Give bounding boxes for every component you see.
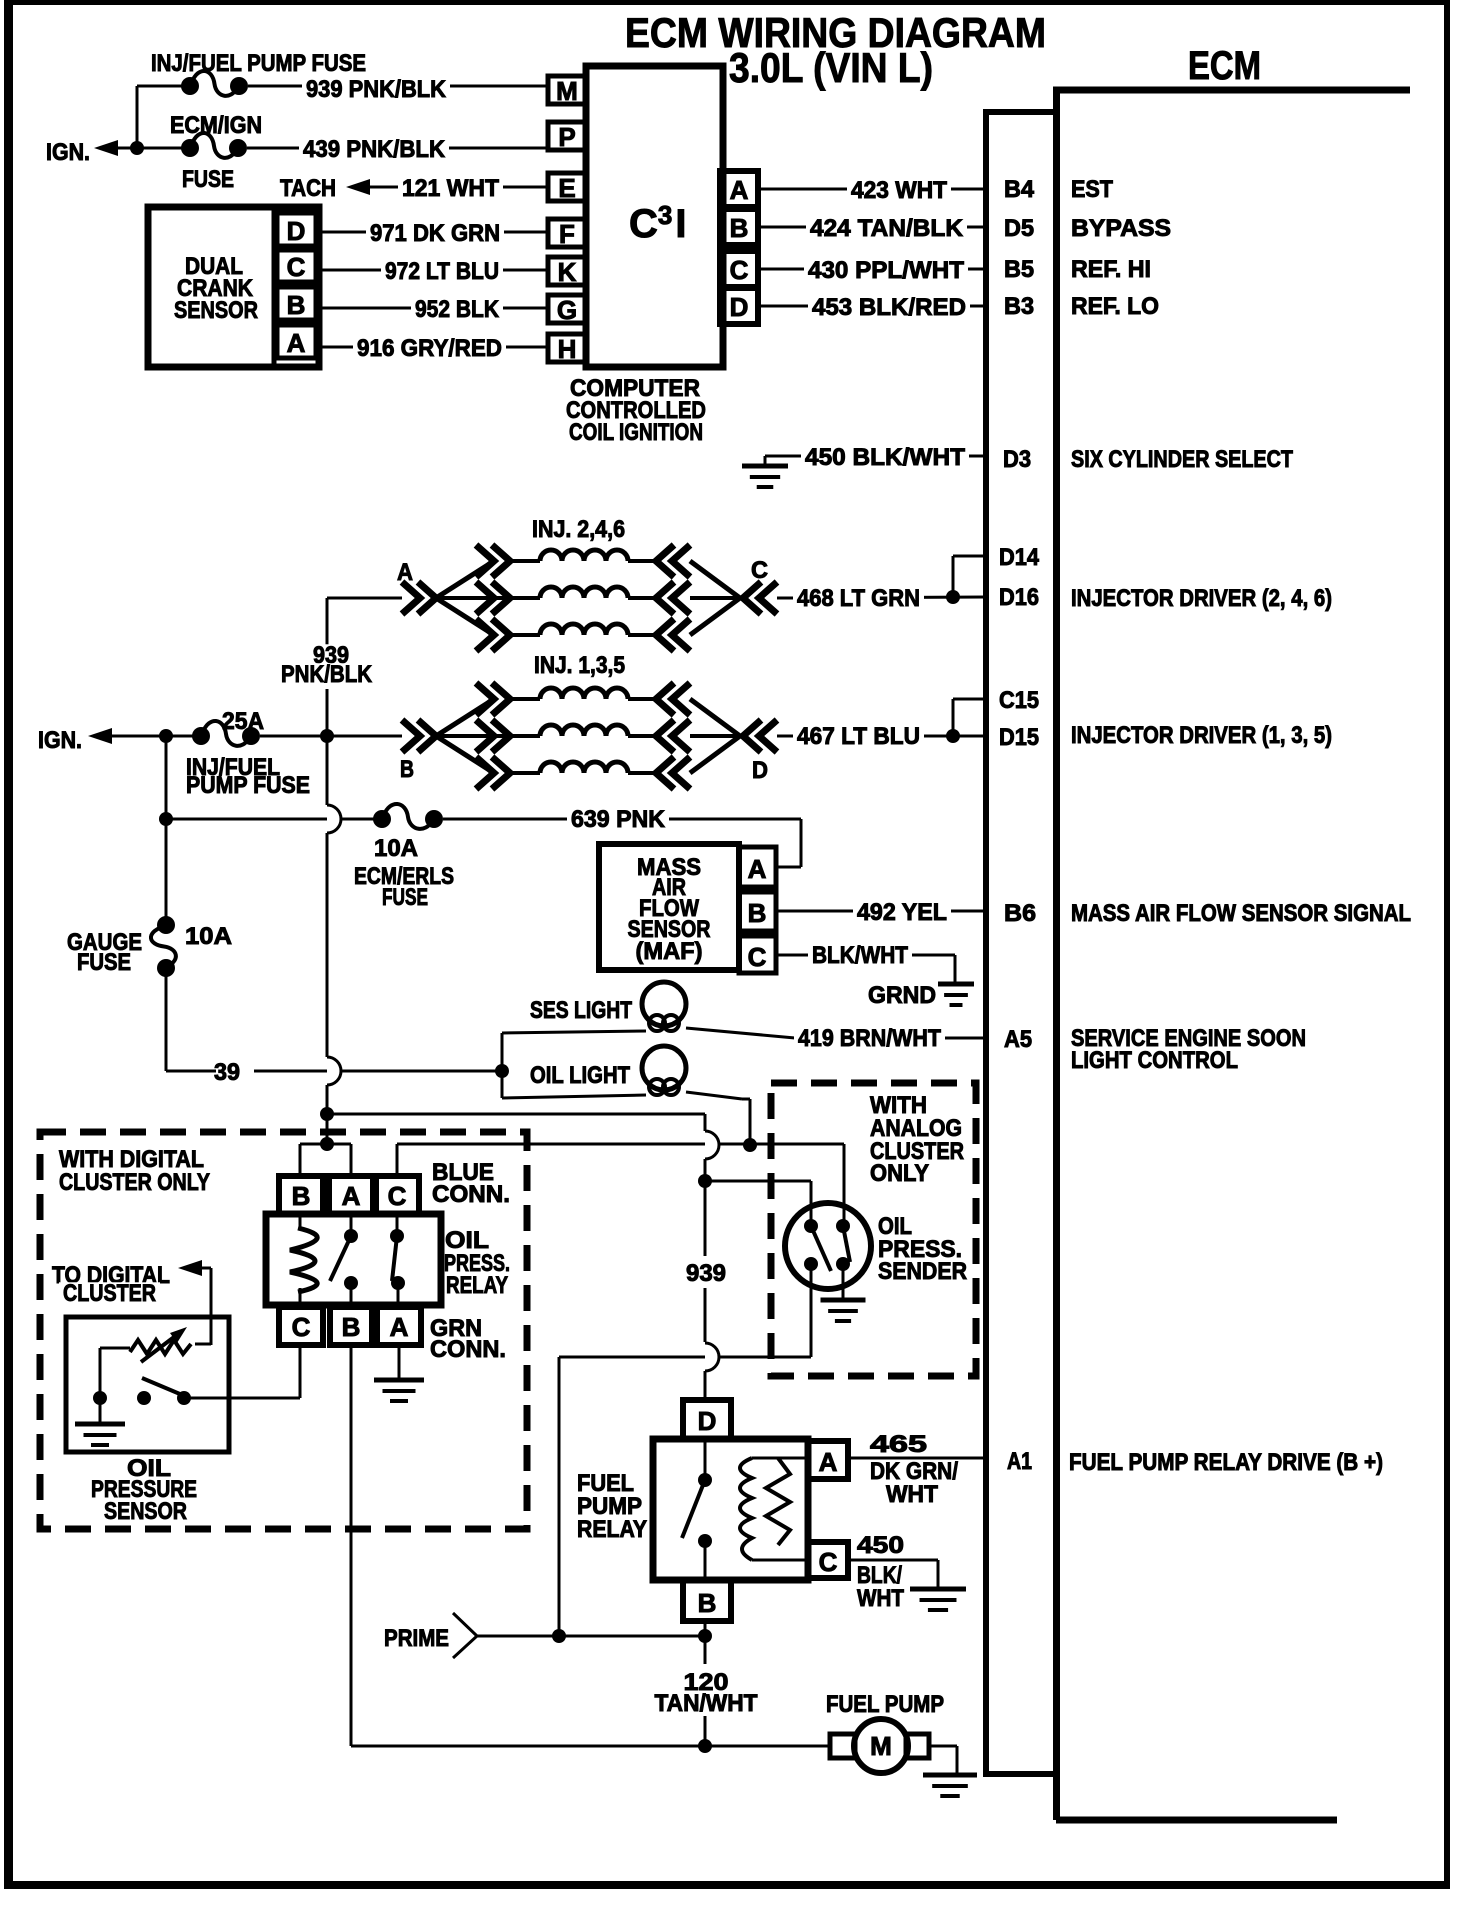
svg-text:423 WHT: 423 WHT <box>851 177 947 204</box>
svg-text:419 BRN/WHT: 419 BRN/WHT <box>798 1025 941 1052</box>
oil press relay pin B (top) <box>279 1176 323 1214</box>
svg-text:B: B <box>400 756 414 783</box>
svg-text:(MAF): (MAF) <box>636 938 703 965</box>
wire: 939 PNK/BLK to pin M <box>248 76 548 104</box>
svg-text:B: B <box>748 898 767 928</box>
svg-text:424 TAN/BLK: 424 TAN/BLK <box>810 215 964 242</box>
svg-text:D14: D14 <box>999 544 1040 571</box>
crank sensor pin A <box>277 325 316 358</box>
ground in oil pressure sensor <box>75 1398 125 1445</box>
svg-text:GRND: GRND <box>868 982 936 1009</box>
label BLUE CONN. <box>432 1159 510 1208</box>
svg-text:450 BLK/WHT: 450 BLK/WHT <box>805 444 965 471</box>
svg-text:PUMP FUSE: PUMP FUSE <box>186 772 310 799</box>
wire: 492 YEL to B6 MASS AIR FLOW SENSOR SIGNAL <box>776 899 1411 927</box>
oil press relay switch 2 <box>390 1214 405 1307</box>
fuse: ECM/IGN FUSE <box>170 112 262 193</box>
svg-text:OIL LIGHT: OIL LIGHT <box>530 1062 630 1089</box>
ground at sender <box>821 1264 866 1321</box>
svg-text:A: A <box>390 1312 409 1342</box>
node: relay feed junction <box>320 1137 334 1151</box>
svg-text:B: B <box>292 1181 311 1211</box>
svg-text:K: K <box>558 257 577 287</box>
svg-text:PNK/BLK: PNK/BLK <box>281 661 373 688</box>
wire: 419 BRN/WHT to A5 SERVICE ENGINE SOON <box>794 1025 1306 1074</box>
wire: 972 LT BLU pin C to K <box>316 258 548 286</box>
svg-text:IGN.: IGN. <box>38 727 82 754</box>
wire: 952 BLK pin B to G <box>316 296 548 324</box>
wire: IGN to fuse 25A <box>110 735 201 738</box>
ground GRND <box>868 982 974 1009</box>
svg-text:RELAY: RELAY <box>577 1516 647 1543</box>
wire: 916 GRY/RED pin A to H <box>316 335 548 363</box>
oil press relay body <box>266 1214 510 1305</box>
svg-text:39: 39 <box>214 1059 240 1086</box>
node: injector driver junction D16 <box>946 590 960 604</box>
svg-text:492 YEL: 492 YEL <box>857 899 947 926</box>
node: gauge-fuse branch junction <box>159 729 173 743</box>
svg-text:SIX CYLINDER SELECT: SIX CYLINDER SELECT <box>1071 446 1293 473</box>
fuel pump relay pin B <box>683 1580 731 1621</box>
svg-text:F: F <box>559 219 575 249</box>
wire: relay pin B down to fuel pump feed <box>351 1345 705 1746</box>
rheostat (variable resistor) <box>100 1327 211 1362</box>
svg-text:3.0L (VIN L): 3.0L (VIN L) <box>729 44 933 91</box>
svg-text:A: A <box>730 175 749 205</box>
oil press relay pin B (bottom) <box>330 1307 372 1345</box>
svg-text:A: A <box>397 559 413 586</box>
wire: BLK/WHT from MAF pin C to GRND <box>776 942 955 984</box>
wire: 453 BLK/RED to B3 REF. LO <box>758 293 1159 322</box>
svg-text:A: A <box>819 1447 838 1477</box>
svg-text:P: P <box>558 122 575 152</box>
wire: 450 BLK/WHT from pin C to ground <box>848 1532 938 1612</box>
dashed box WITH DIGITAL CLUSTER ONLY <box>40 1132 527 1529</box>
svg-text:TACH: TACH <box>280 175 336 202</box>
wire: fuse to injector bank B <box>260 735 402 738</box>
wire: 468 LT GRN to D16 <box>793 585 986 613</box>
C3I pin H <box>548 334 586 364</box>
wire: 465 DK GRN/WHT to A1 <box>848 1431 1383 1508</box>
crank sensor pin D <box>277 213 316 246</box>
fuel pump motor <box>826 1691 944 1773</box>
node: 639 branch junction <box>159 812 173 826</box>
fuse: INJ/FUEL PUMP FUSE (top) <box>151 50 366 96</box>
wire: motor to ground <box>929 1746 957 1775</box>
svg-text:10A: 10A <box>185 923 232 950</box>
node B (bank 1,3,5 left) <box>400 756 414 783</box>
svg-text:C15: C15 <box>999 687 1039 714</box>
pin D16 INJECTOR DRIVER (2,4,6) <box>999 584 1332 612</box>
svg-text:RELAY: RELAY <box>446 1272 508 1299</box>
label GRN CONN. <box>430 1315 506 1363</box>
wire: gauge fuse down to circuit 39 <box>166 968 502 1086</box>
wire: 639 PNK row <box>166 818 382 821</box>
title: ECM WIRING DIAGRAM 3.0L (VIN L) <box>625 9 1046 91</box>
svg-text:952 BLK: 952 BLK <box>415 296 500 323</box>
svg-text:BLK/WHT: BLK/WHT <box>812 942 908 969</box>
node D (bank 1,3,5 right) <box>752 757 768 784</box>
MAF pin A <box>739 847 776 887</box>
svg-text:CLUSTER ONLY: CLUSTER ONLY <box>59 1169 210 1196</box>
svg-text:INJ. 2,4,6: INJ. 2,4,6 <box>532 516 625 543</box>
C3I output pin D <box>720 288 758 324</box>
svg-text:121 WHT: 121 WHT <box>402 175 499 202</box>
wire: 939 drop to fuel pump relay <box>686 1181 726 1400</box>
svg-text:H: H <box>558 334 577 364</box>
fuel pump relay pin C <box>808 1542 848 1578</box>
svg-text:INJECTOR DRIVER (2, 4, 6): INJECTOR DRIVER (2, 4, 6) <box>1071 585 1332 612</box>
svg-text:453 BLK/RED: 453 BLK/RED <box>812 294 966 321</box>
MAF pin C <box>739 936 776 973</box>
svg-text:ECM/IGN: ECM/IGN <box>170 112 262 139</box>
svg-text:SENSOR: SENSOR <box>104 1498 187 1525</box>
wire: 39 feed to lights <box>501 1033 504 1098</box>
svg-text:C: C <box>819 1547 838 1577</box>
SES LIGHT bulb <box>502 982 686 1033</box>
wire: to sender left contact <box>705 1181 811 1226</box>
svg-text:B3: B3 <box>1004 293 1034 320</box>
wire: 639 PNK to MAF pin A <box>443 806 801 867</box>
node: prime junction at pin B <box>698 1629 712 1643</box>
svg-text:450: 450 <box>857 1532 904 1559</box>
svg-text:D: D <box>287 216 306 246</box>
ECM box outline <box>1053 90 1410 1820</box>
crank sensor pin B <box>277 287 316 320</box>
svg-text:REF. HI: REF. HI <box>1071 256 1151 283</box>
ground at relay pin A <box>374 1345 424 1401</box>
crank sensor pin C <box>277 250 316 282</box>
svg-text:939 PNK/BLK: 939 PNK/BLK <box>306 76 447 103</box>
C3I pin M <box>548 76 586 106</box>
svg-text:C: C <box>748 942 767 972</box>
wire: 939 PNK/BLK riser <box>277 598 402 1145</box>
MAF pin B <box>739 892 776 931</box>
svg-text:D: D <box>752 757 768 784</box>
node: fuel pump junction <box>698 1739 712 1753</box>
svg-text:B: B <box>287 290 306 320</box>
svg-text:B: B <box>698 1588 717 1618</box>
svg-text:LIGHT CONTROL: LIGHT CONTROL <box>1071 1047 1238 1074</box>
svg-text:B: B <box>730 213 749 243</box>
node: sender branch junction <box>698 1174 712 1188</box>
svg-text:D: D <box>730 292 749 322</box>
svg-text:A: A <box>748 854 767 884</box>
injector bank INJ. 2,4,6 <box>402 545 797 651</box>
svg-text:E: E <box>558 173 575 203</box>
C3I pin F <box>548 219 586 249</box>
svg-text:D15: D15 <box>999 724 1039 751</box>
svg-text:PRIME: PRIME <box>384 1625 449 1652</box>
dual crank sensor <box>148 207 319 367</box>
svg-text:C3I: C3I <box>629 200 686 246</box>
svg-text:MASS AIR FLOW SENSOR SIGNAL: MASS AIR FLOW SENSOR SIGNAL <box>1071 900 1411 927</box>
ground at fuel pump relay pin C <box>910 1589 966 1610</box>
svg-text:B5: B5 <box>1004 256 1034 283</box>
svg-text:430 PPL/WHT: 430 PPL/WHT <box>808 257 964 284</box>
svg-text:467 LT BLU: 467 LT BLU <box>797 723 920 750</box>
C3I pin E <box>548 173 586 203</box>
svg-text:FUSE: FUSE <box>182 166 234 193</box>
fuse: 25A INJ/FUEL PUMP FUSE <box>186 708 310 799</box>
svg-text:A1: A1 <box>1007 1448 1032 1475</box>
svg-text:ONLY: ONLY <box>870 1160 929 1187</box>
node: lights junction <box>495 1064 509 1078</box>
wire: TACH 121 WHT to pin E <box>276 175 548 203</box>
svg-text:M: M <box>556 76 578 106</box>
arrow IGN (top) <box>46 139 118 166</box>
arrow IGN (lower) <box>38 727 112 754</box>
svg-text:COIL IGNITION: COIL IGNITION <box>569 419 703 446</box>
ECM block label <box>1188 44 1261 88</box>
label INJ. 2,4,6 <box>532 516 625 543</box>
svg-text:B: B <box>342 1312 361 1342</box>
svg-text:10A: 10A <box>374 835 418 862</box>
svg-text:CONN.: CONN. <box>430 1336 506 1363</box>
oil pressure sensor switch <box>93 1348 191 1405</box>
wire: 423 WHT to B4 EST <box>758 176 1113 205</box>
ground at fuel pump motor <box>923 1775 977 1796</box>
C3I output pin C <box>720 251 758 287</box>
svg-text:WHT: WHT <box>857 1585 904 1612</box>
wire: to fuel pump motor <box>705 1745 830 1748</box>
node: prime junction 1 <box>552 1629 566 1643</box>
svg-text:25A: 25A <box>222 708 264 735</box>
wire: OIL light drop to sender row <box>686 1092 750 1145</box>
oil press relay coil <box>290 1214 317 1307</box>
svg-text:939: 939 <box>686 1260 726 1287</box>
C3I pin K <box>548 257 586 287</box>
svg-text:FUEL PUMP RELAY DRIVE (B +): FUEL PUMP RELAY DRIVE (B +) <box>1069 1449 1383 1476</box>
wire: prime to relay pin B <box>559 1635 705 1638</box>
svg-text:EST: EST <box>1071 176 1113 203</box>
wire: feed to relay pins B and A <box>300 1144 351 1176</box>
svg-text:A: A <box>342 1181 361 1211</box>
svg-text:468 LT GRN: 468 LT GRN <box>797 585 920 612</box>
oil press relay pin C (bottom) <box>279 1307 323 1345</box>
svg-text:A5: A5 <box>1004 1026 1032 1053</box>
svg-text:INJ/FUEL PUMP FUSE: INJ/FUEL PUMP FUSE <box>151 50 366 77</box>
oil pressure sensor box <box>66 1317 229 1525</box>
svg-text:SENSOR: SENSOR <box>174 297 258 324</box>
svg-text:A: A <box>287 328 306 358</box>
C3I pin P <box>548 122 586 152</box>
svg-text:C: C <box>730 255 749 285</box>
oil press relay pin C (top) <box>376 1176 419 1214</box>
pin D14 <box>999 544 1040 571</box>
node: 939 riser junction on IGN row <box>320 729 334 743</box>
wire: branch over to fuel pump relay <box>327 1114 719 1181</box>
ECM connector strip <box>986 112 1056 1774</box>
svg-text:B4: B4 <box>1004 176 1035 203</box>
node C (bank 2,4,6 right) <box>751 557 768 584</box>
svg-text:IGN.: IGN. <box>46 139 90 166</box>
fuel pump relay switch <box>682 1439 712 1580</box>
MAF sensor box <box>599 844 739 970</box>
svg-text:916 GRY/RED: 916 GRY/RED <box>357 335 502 362</box>
ground at D3 wire <box>742 456 788 487</box>
fuse: GAUGE FUSE 10A <box>67 916 232 977</box>
svg-text:FUEL PUMP: FUEL PUMP <box>826 1691 944 1718</box>
svg-text:D5: D5 <box>1004 215 1034 242</box>
wire: 424 TAN/BLK to D5 BYPASS <box>758 215 1171 243</box>
svg-text:C: C <box>287 252 306 282</box>
pin C15 <box>999 687 1039 714</box>
svg-text:C: C <box>388 1181 407 1211</box>
oil press relay pin A (top) <box>329 1176 373 1214</box>
node A (bank 2,4,6 left) <box>397 559 413 586</box>
wire: 971 DK GRN pin D to F <box>316 220 548 248</box>
wire: IGN feed riser <box>118 86 190 148</box>
wire: SES light to 419 BRN/WHT <box>686 1028 795 1038</box>
svg-text:CLUSTER: CLUSTER <box>63 1280 156 1307</box>
wire: branch to D14 <box>953 556 986 597</box>
oil press relay switch 1 <box>330 1214 358 1307</box>
svg-text:D16: D16 <box>999 584 1039 611</box>
svg-text:465: 465 <box>870 1431 927 1458</box>
svg-text:INJ. 1,3,5: INJ. 1,3,5 <box>534 652 625 679</box>
fuse: 10A ECM/ERLS FUSE <box>354 804 454 911</box>
svg-text:SES LIGHT: SES LIGHT <box>530 997 632 1024</box>
svg-text:SENDER: SENDER <box>878 1258 967 1285</box>
wire: branch to C15 <box>953 699 986 736</box>
svg-text:D3: D3 <box>1003 446 1031 473</box>
svg-text:WHT: WHT <box>886 1481 938 1508</box>
wire: 430 PPL/WHT to B5 REF. HI <box>758 256 1151 285</box>
wire: left drop from IGN row <box>165 736 168 925</box>
fuel pump relay pin D <box>683 1400 731 1439</box>
svg-text:639 PNK: 639 PNK <box>571 806 666 833</box>
oil press sender <box>785 1203 967 1289</box>
svg-text:CONN.: CONN. <box>432 1181 510 1208</box>
C3I output pin A <box>720 171 758 207</box>
node: oil light junction on pin C wire <box>743 1138 757 1152</box>
wire: 439 PNK/BLK to pin P <box>247 136 548 164</box>
svg-text:439 PNK/BLK: 439 PNK/BLK <box>303 136 446 163</box>
wire: sender to prime line <box>559 1264 811 1635</box>
svg-text:REF. LO: REF. LO <box>1071 293 1159 320</box>
svg-text:C: C <box>751 557 768 584</box>
wire: 450 BLK/WHT to D3 SIX CYLINDER SELECT <box>765 444 1293 473</box>
svg-text:971 DK GRN: 971 DK GRN <box>370 220 500 247</box>
wire: 467 LT BLU to D15 <box>793 723 986 751</box>
node: 939 junction to fuel pump branch <box>320 1107 334 1121</box>
svg-text:B6: B6 <box>1004 900 1036 927</box>
oil press relay pin A (bottom) <box>377 1307 421 1345</box>
C3I output pin B <box>720 209 758 245</box>
svg-text:972 LT BLU: 972 LT BLU <box>385 258 499 285</box>
pin D15 INJECTOR DRIVER (1,3,5) <box>999 722 1332 751</box>
svg-text:TAN/WHT: TAN/WHT <box>655 1690 758 1717</box>
svg-text:D: D <box>698 1406 717 1436</box>
label INJ. 1,3,5 <box>534 652 625 679</box>
svg-text:FUSE: FUSE <box>77 949 131 976</box>
svg-text:C: C <box>292 1312 311 1342</box>
wire: relay pin C to sender right contact <box>397 1144 844 1226</box>
OIL LIGHT bulb <box>502 1046 686 1098</box>
wire: 120 TAN/WHT <box>655 1621 758 1746</box>
fuel pump relay body <box>577 1439 808 1580</box>
svg-text:FUSE: FUSE <box>382 884 428 911</box>
arrow TO DIGITAL CLUSTER <box>48 1260 211 1345</box>
dashed box WITH ANALOG CLUSTER ONLY <box>771 1083 976 1376</box>
fuel pump relay coil <box>740 1458 808 1560</box>
svg-text:BYPASS: BYPASS <box>1071 215 1171 242</box>
node: injector driver junction D15 <box>946 729 960 743</box>
PRIME connector <box>384 1613 559 1658</box>
C3I module <box>566 66 723 446</box>
C3I pin G <box>548 295 586 325</box>
injector bank INJ. 1,3,5 <box>402 683 797 789</box>
svg-text:ECM: ECM <box>1188 44 1261 88</box>
svg-text:M: M <box>870 1731 892 1761</box>
node: IGN junction <box>130 141 144 155</box>
wire: relay pin C to oil pressure sensor <box>184 1345 300 1398</box>
svg-text:INJECTOR DRIVER (1, 3, 5): INJECTOR DRIVER (1, 3, 5) <box>1071 722 1332 749</box>
fuel pump relay pin A <box>808 1441 848 1479</box>
svg-text:G: G <box>557 295 577 325</box>
